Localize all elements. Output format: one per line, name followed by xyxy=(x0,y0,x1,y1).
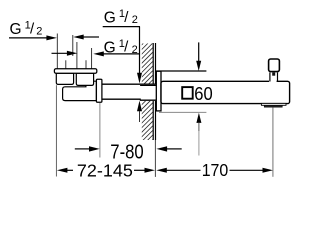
svg-text:G: G xyxy=(104,10,116,27)
svg-text:2: 2 xyxy=(132,14,138,26)
svg-text:G: G xyxy=(10,21,22,38)
svg-text:72-145: 72-145 xyxy=(77,161,133,181)
svg-text:2: 2 xyxy=(36,26,42,38)
svg-text:60: 60 xyxy=(194,83,212,104)
svg-text:170: 170 xyxy=(202,160,229,180)
